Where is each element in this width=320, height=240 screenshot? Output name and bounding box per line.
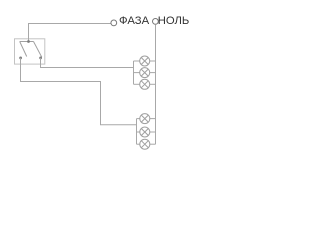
switch common node (dot) — [27, 40, 30, 43]
switch terminal dot left — [19, 57, 22, 60]
svg-text:НОЛЬ: НОЛЬ — [158, 15, 190, 27]
wire: bottom lamp 3 stubs — [137, 143, 140, 145]
switch common bar — [20, 41, 34, 43]
lamp EL3 — [140, 79, 150, 89]
node: top group left bus — [133, 61, 135, 84]
wire: left switch output to bottom lamp group — [21, 58, 137, 125]
lamp EL2 — [140, 68, 150, 78]
svg-text:ФАЗА: ФАЗА — [119, 15, 150, 27]
wire: bottom lamp 1 stubs — [137, 118, 140, 120]
node: bottom group left bus — [136, 119, 138, 145]
switch lever S1 (left) — [20, 42, 27, 57]
wire: neutral bus — [155, 24, 157, 144]
switch lever S2 (right) — [34, 42, 42, 58]
switch terminal dot right — [39, 57, 42, 60]
wire: bottom lamp 2 stubs — [137, 131, 140, 133]
lamp EL5 — [140, 127, 150, 137]
wire: phase feed horizontal to box — [29, 24, 111, 42]
switch enclosure box — [15, 39, 45, 64]
lamp EL4 — [140, 114, 150, 124]
terminal ФАЗА — [111, 20, 117, 26]
lamp EL1 — [140, 56, 150, 66]
terminal НОЛЬ — [153, 19, 159, 25]
wire: right switch output to top lamp group — [41, 58, 134, 68]
wire: top lamp 2 stubs — [134, 72, 140, 74]
wire: top lamp 3 stubs — [134, 83, 140, 85]
lamp EL6 — [140, 139, 150, 149]
wire: top lamp 1 stubs — [134, 60, 140, 62]
